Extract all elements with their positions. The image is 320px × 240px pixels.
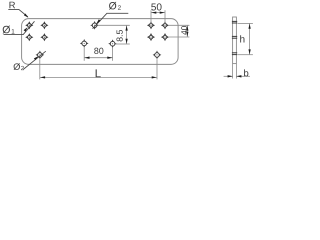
hole H3 [25, 33, 33, 41]
side view hole lines top [232, 21, 237, 23]
leader diameter 2 top [93, 13, 129, 28]
dimension L [40, 59, 157, 79]
dimension 8.5 [98, 25, 130, 44]
label diameter 2 top [109, 2, 121, 10]
side view hole lines middle [232, 36, 237, 38]
hole H11 [161, 21, 169, 29]
hole H2 [40, 21, 48, 29]
side view outline [233, 17, 237, 64]
hole H5 [90, 21, 99, 30]
hole H12 [147, 33, 155, 41]
dimension 40 [169, 25, 190, 37]
hole H8 [36, 51, 45, 60]
hole H6 [80, 39, 89, 48]
hole H13 [161, 33, 169, 41]
dimension 80 [84, 47, 112, 61]
hole H9 [153, 51, 162, 60]
label diameter 2 bottom [14, 63, 24, 70]
hole H7 [108, 39, 117, 48]
leader diameter 1 [4, 21, 35, 34]
leader diameter 2 bottom [23, 51, 46, 69]
side view hole lines bottom [232, 53, 237, 55]
dimension b [224, 64, 250, 79]
dimension 50 [151, 3, 165, 24]
label R [9, 2, 15, 8]
hole H4 [40, 33, 48, 41]
label diameter 1 [3, 26, 15, 34]
dimension h [238, 23, 253, 54]
hole H10 [147, 21, 155, 29]
leader R [8, 9, 29, 18]
hole H1 [25, 21, 33, 29]
plate outline front view [22, 19, 179, 65]
